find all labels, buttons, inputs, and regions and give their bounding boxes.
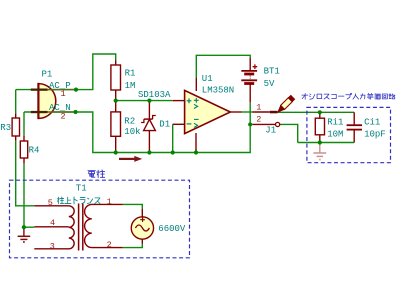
diode D1 SD103A schottky bbox=[141, 101, 156, 153]
wire ground junction to T1 pin 4 bbox=[24, 226, 34, 228]
svg-text:2: 2 bbox=[61, 112, 66, 122]
label R4 bbox=[29, 145, 40, 155]
svg-text:1: 1 bbox=[256, 102, 261, 112]
label D1 bbox=[159, 119, 170, 129]
connector J1 pin 2 bbox=[252, 122, 279, 126]
connector J1 pin 1 bbox=[252, 111, 277, 114]
svg-text:10k: 10k bbox=[124, 127, 140, 137]
battery BT1 bbox=[241, 58, 257, 102]
label 1M bbox=[125, 81, 136, 91]
svg-text:J1: J1 bbox=[265, 126, 276, 136]
wire scope probe net top bbox=[278, 111, 354, 113]
pin number 1 P1 bbox=[61, 89, 66, 99]
svg-text:Ci1: Ci1 bbox=[364, 118, 380, 128]
svg-text:2: 2 bbox=[107, 240, 112, 250]
dashed box utility pole bbox=[10, 180, 190, 258]
junction Ri1 top bbox=[318, 110, 322, 114]
svg-text:T1: T1 bbox=[76, 184, 87, 194]
wire R4 bottom to ground junction bbox=[23, 163, 25, 227]
svg-text:D1: D1 bbox=[159, 119, 170, 129]
svg-text:R4: R4 bbox=[29, 145, 40, 155]
transformer T1 primary winding bbox=[34, 206, 74, 249]
label R1 bbox=[125, 69, 136, 79]
ground faded in scope box bbox=[313, 143, 326, 160]
wire AC_N rail from R4 column to P1 pin 2 junction bbox=[24, 111, 76, 113]
resistor R1 bbox=[111, 61, 121, 101]
pin number 1 J1 bbox=[256, 102, 261, 112]
wire minus input from bus bbox=[172, 124, 174, 152]
svg-text:1: 1 bbox=[107, 197, 112, 207]
label 10M bbox=[327, 130, 343, 140]
probe icon at J1 pin 1 bbox=[278, 95, 295, 112]
label AC_N bbox=[49, 103, 71, 113]
svg-text:U1: U1 bbox=[202, 74, 213, 84]
svg-text:R3: R3 bbox=[0, 123, 11, 133]
pin number 3 T1 bbox=[50, 241, 55, 251]
wire R3 top segment bbox=[15, 90, 17, 114]
dashed box oscilloscope equivalent bbox=[307, 107, 391, 162]
resistor R3 bbox=[12, 113, 19, 140]
connector P1 pin 1 prong bbox=[31, 89, 48, 91]
wire plus input net R1 bottom to op-amp bbox=[116, 100, 173, 102]
label U1 bbox=[202, 74, 213, 84]
label Ri1 bbox=[327, 118, 343, 128]
svg-text:4: 4 bbox=[50, 218, 55, 228]
wire bottom bus AC_N to battery minus bbox=[76, 102, 251, 152]
label J1 bbox=[265, 126, 276, 136]
svg-text:BT1: BT1 bbox=[264, 67, 280, 77]
junction R1-R2 node bbox=[114, 99, 118, 103]
resistor R2 bbox=[111, 101, 121, 151]
connector P1 body bbox=[38, 83, 55, 119]
label R3 bbox=[0, 123, 11, 133]
capacitor Ci1 bbox=[347, 112, 362, 142]
wire op-amp V+ to battery plus bbox=[196, 55, 250, 78]
wire R4 top segment bbox=[23, 112, 25, 136]
label R2 bbox=[124, 116, 135, 126]
wire AC_P junction to R1 top via riser bbox=[76, 54, 116, 90]
svg-text:1: 1 bbox=[61, 89, 66, 99]
wire op-amp output to J1 pin 1 bbox=[242, 111, 253, 113]
wire scope ground net bottom bbox=[298, 142, 355, 144]
svg-text:Ri1: Ri1 bbox=[327, 118, 343, 128]
label P1 bbox=[42, 69, 53, 79]
label LM358N bbox=[202, 85, 234, 95]
pin number 2 T1 bbox=[107, 240, 112, 250]
svg-text:P1: P1 bbox=[42, 69, 53, 79]
svg-text:3: 3 bbox=[50, 241, 55, 251]
label 6600V bbox=[158, 224, 186, 234]
svg-text:LM358N: LM358N bbox=[202, 85, 234, 95]
junction R2 bottom bus bbox=[114, 150, 118, 154]
pin number 2 P1 bbox=[61, 112, 66, 122]
junction P1 pin1 bbox=[74, 88, 78, 92]
label 5V bbox=[264, 79, 275, 89]
note text CHUJO TORANSU (pole transformer) bbox=[57, 197, 100, 204]
junction minus input bus bbox=[171, 150, 175, 154]
label SD103A bbox=[138, 90, 171, 100]
wire J1 pin 2 to scope ground net bbox=[280, 124, 298, 142]
svg-text:5: 5 bbox=[48, 198, 53, 208]
svg-text:1M: 1M bbox=[125, 81, 136, 91]
svg-text:R2: R2 bbox=[124, 116, 135, 126]
pin number 4 T1 bbox=[50, 218, 55, 228]
svg-text:2: 2 bbox=[256, 115, 261, 125]
junction V- bus bbox=[194, 150, 198, 154]
note text OSCILLOSCOPE INPUT EQUIV CIRCUIT bbox=[302, 93, 395, 99]
resistor R4 bbox=[20, 136, 27, 164]
junction P1 pin2 bbox=[73, 110, 77, 114]
label Ci1 bbox=[364, 118, 380, 128]
voltage source 6600V bbox=[131, 209, 153, 244]
wire AC_P rail from R3 column to P1 pin 1 junction bbox=[16, 89, 76, 91]
wire T1 pin 1 to source top bbox=[123, 204, 143, 209]
svg-text:6600V: 6600V bbox=[158, 224, 186, 234]
junction D1 cathode node bbox=[147, 99, 151, 103]
label 10k bbox=[124, 127, 140, 137]
svg-text:SD103A: SD103A bbox=[138, 90, 171, 100]
wire overlap pin1 olive bbox=[48, 89, 76, 91]
wire T1 pin 2 to source bottom bbox=[123, 244, 143, 248]
transformer T1 core bbox=[79, 204, 83, 251]
junction Ri1 bottom bbox=[318, 140, 322, 144]
note text DENCHU (utility pole) bbox=[88, 170, 105, 178]
label 10pF bbox=[364, 130, 386, 140]
junction D1 anode bus bbox=[147, 150, 151, 154]
wire R3 bottom to T1 pin 5 bbox=[16, 141, 35, 206]
pin number 5 T1 bbox=[48, 198, 53, 208]
junction T1 pin4 ground bbox=[22, 225, 26, 229]
wire op-amp V- to bus bbox=[195, 150, 197, 153]
svg-text:10pF: 10pF bbox=[364, 130, 386, 140]
ground at T1 pin 4 bbox=[18, 227, 31, 242]
op-amp U1 bbox=[173, 78, 242, 151]
svg-text:R1: R1 bbox=[125, 69, 136, 79]
label AC_P bbox=[49, 81, 71, 91]
resistor Ri1 bbox=[315, 112, 324, 142]
wire overlap pin2 olive bbox=[48, 111, 76, 113]
label BT1 bbox=[264, 67, 280, 77]
current direction arrow bbox=[119, 156, 142, 162]
transformer T1 secondary winding bbox=[85, 204, 123, 247]
pin number 1 T1 bbox=[107, 197, 112, 207]
svg-text:10M: 10M bbox=[327, 130, 343, 140]
svg-text:5V: 5V bbox=[264, 79, 275, 89]
junction J1 pin2 branch bbox=[248, 122, 252, 126]
pin number 2 J1 bbox=[256, 115, 261, 125]
connector P1 pin 2 prong bbox=[31, 111, 48, 113]
label T1 bbox=[76, 184, 87, 194]
